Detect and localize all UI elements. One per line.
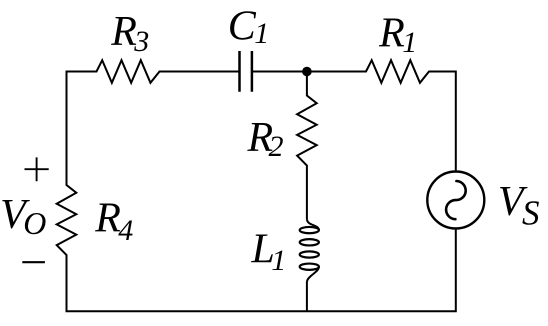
svg-text:R: R — [110, 9, 137, 55]
svg-text:R: R — [94, 195, 121, 241]
svg-text:4: 4 — [118, 214, 133, 247]
svg-text:3: 3 — [133, 25, 149, 58]
svg-text:1: 1 — [271, 244, 286, 277]
svg-text:2: 2 — [269, 130, 284, 163]
svg-text:R: R — [378, 11, 405, 57]
svg-text:O: O — [23, 205, 46, 241]
svg-text:C: C — [228, 4, 257, 50]
svg-text:1: 1 — [254, 17, 269, 50]
svg-text:S: S — [522, 193, 540, 232]
svg-text:1: 1 — [402, 26, 417, 59]
